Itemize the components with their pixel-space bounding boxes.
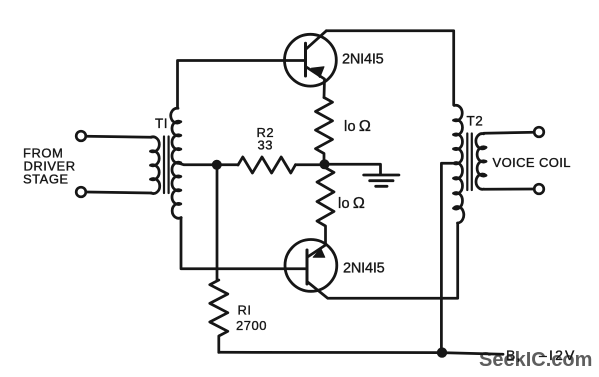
wire node B to ground (325, 164, 381, 174)
label FROM DRIVER STAGE (23, 146, 76, 187)
wire T1 center tap to node A (180, 164, 238, 165)
transformer T1 secondary winding (171, 108, 181, 218)
node A junction dot (212, 160, 222, 170)
transistor Q2 circle (285, 240, 337, 292)
svg-text:RI: RI (238, 303, 252, 318)
transistor Q2 emitter arrow (PNP) (313, 249, 325, 258)
transistor Q2 base bar (306, 250, 309, 284)
resistor 10 ohm (upper) zigzag (316, 98, 333, 165)
wire T1 secondary bottom riser to Q2 base (181, 218, 307, 269)
output terminal (top) (534, 127, 544, 137)
ground symbol (364, 175, 399, 186)
svg-text:2700: 2700 (236, 318, 267, 333)
transistor Q1 collector lead (306, 31, 327, 50)
wire T2 secondary bottom to output terminal (484, 188, 535, 191)
output terminal (bottom) (534, 184, 544, 194)
svg-text:loΩ: loΩ (338, 195, 365, 212)
transistor Q2 emitter lead (308, 245, 327, 258)
wire R2 to node B (296, 163, 325, 166)
svg-text:B,–I2V: B,–I2V (506, 347, 577, 363)
input terminal J1 (top) (76, 131, 86, 141)
wire T2 center tap riser (441, 163, 452, 352)
transformer T2 secondary winding (476, 134, 486, 190)
transformer T2 core (467, 134, 472, 191)
input terminal J2 (bottom) (76, 187, 86, 197)
wire J2 to T1 primary bottom (87, 192, 152, 193)
svg-text:STAGE: STAGE (23, 172, 69, 187)
transistor Q1 emitter lead (306, 67, 325, 98)
transistor Q1 base bar (304, 43, 307, 76)
node B junction dot (320, 159, 330, 169)
transistor Q1 emitter arrow (PNP) (311, 67, 324, 78)
wire J1 to T1 primary top (86, 135, 152, 139)
transistor Q1 circle (285, 34, 337, 86)
svg-text:VOICE COIL: VOICE COIL (493, 155, 571, 170)
junction dot on supply wire (437, 347, 447, 357)
top wire Q1 collector to T2 (326, 31, 453, 105)
svg-text:2NI4I5: 2NI4I5 (343, 261, 385, 277)
svg-text:33: 33 (258, 138, 273, 153)
resistor R2 zigzag (238, 157, 296, 173)
svg-text:T2: T2 (467, 114, 484, 129)
wire T1 secondary top riser to Q1 base (178, 61, 306, 109)
bottom supply wire (219, 352, 503, 354)
transformer T2 primary winding (454, 105, 464, 223)
resistor R1 zigzag (210, 280, 228, 352)
svg-text:TI: TI (155, 116, 168, 131)
wire T2 secondary top to output terminal (484, 131, 535, 135)
resistor 10 ohm (lower) zigzag (317, 164, 334, 244)
svg-text:loΩ: loΩ (344, 118, 371, 135)
transformer T1 primary winding (151, 137, 160, 194)
transformer T1 core (164, 137, 169, 194)
resistor R1 riser from node A (216, 165, 219, 280)
svg-text:2NI4I5: 2NI4I5 (342, 52, 384, 68)
transistor Q2 collector lead (307, 223, 458, 298)
